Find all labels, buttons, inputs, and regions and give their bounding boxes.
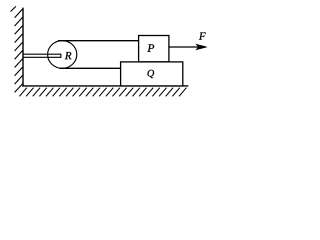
top string from roller to block P [58, 40, 139, 42]
wall [22, 8, 24, 87]
bottom string from roller to block Q [60, 67, 122, 69]
axle rod end cap [60, 54, 62, 58]
block P [139, 36, 169, 62]
force arrow F head [196, 44, 207, 49]
axle rod lower line [23, 56, 61, 58]
label Q [148, 70, 155, 78]
block Q [121, 62, 183, 86]
force arrow F line [169, 46, 199, 48]
label R [65, 52, 72, 59]
label F [199, 33, 206, 40]
axle rod upper line [23, 53, 61, 55]
floor hatching [19, 88, 186, 97]
floor [22, 85, 188, 87]
wall hatching [11, 6, 23, 92]
label P [147, 44, 154, 52]
roller R (wheel) [48, 41, 77, 69]
